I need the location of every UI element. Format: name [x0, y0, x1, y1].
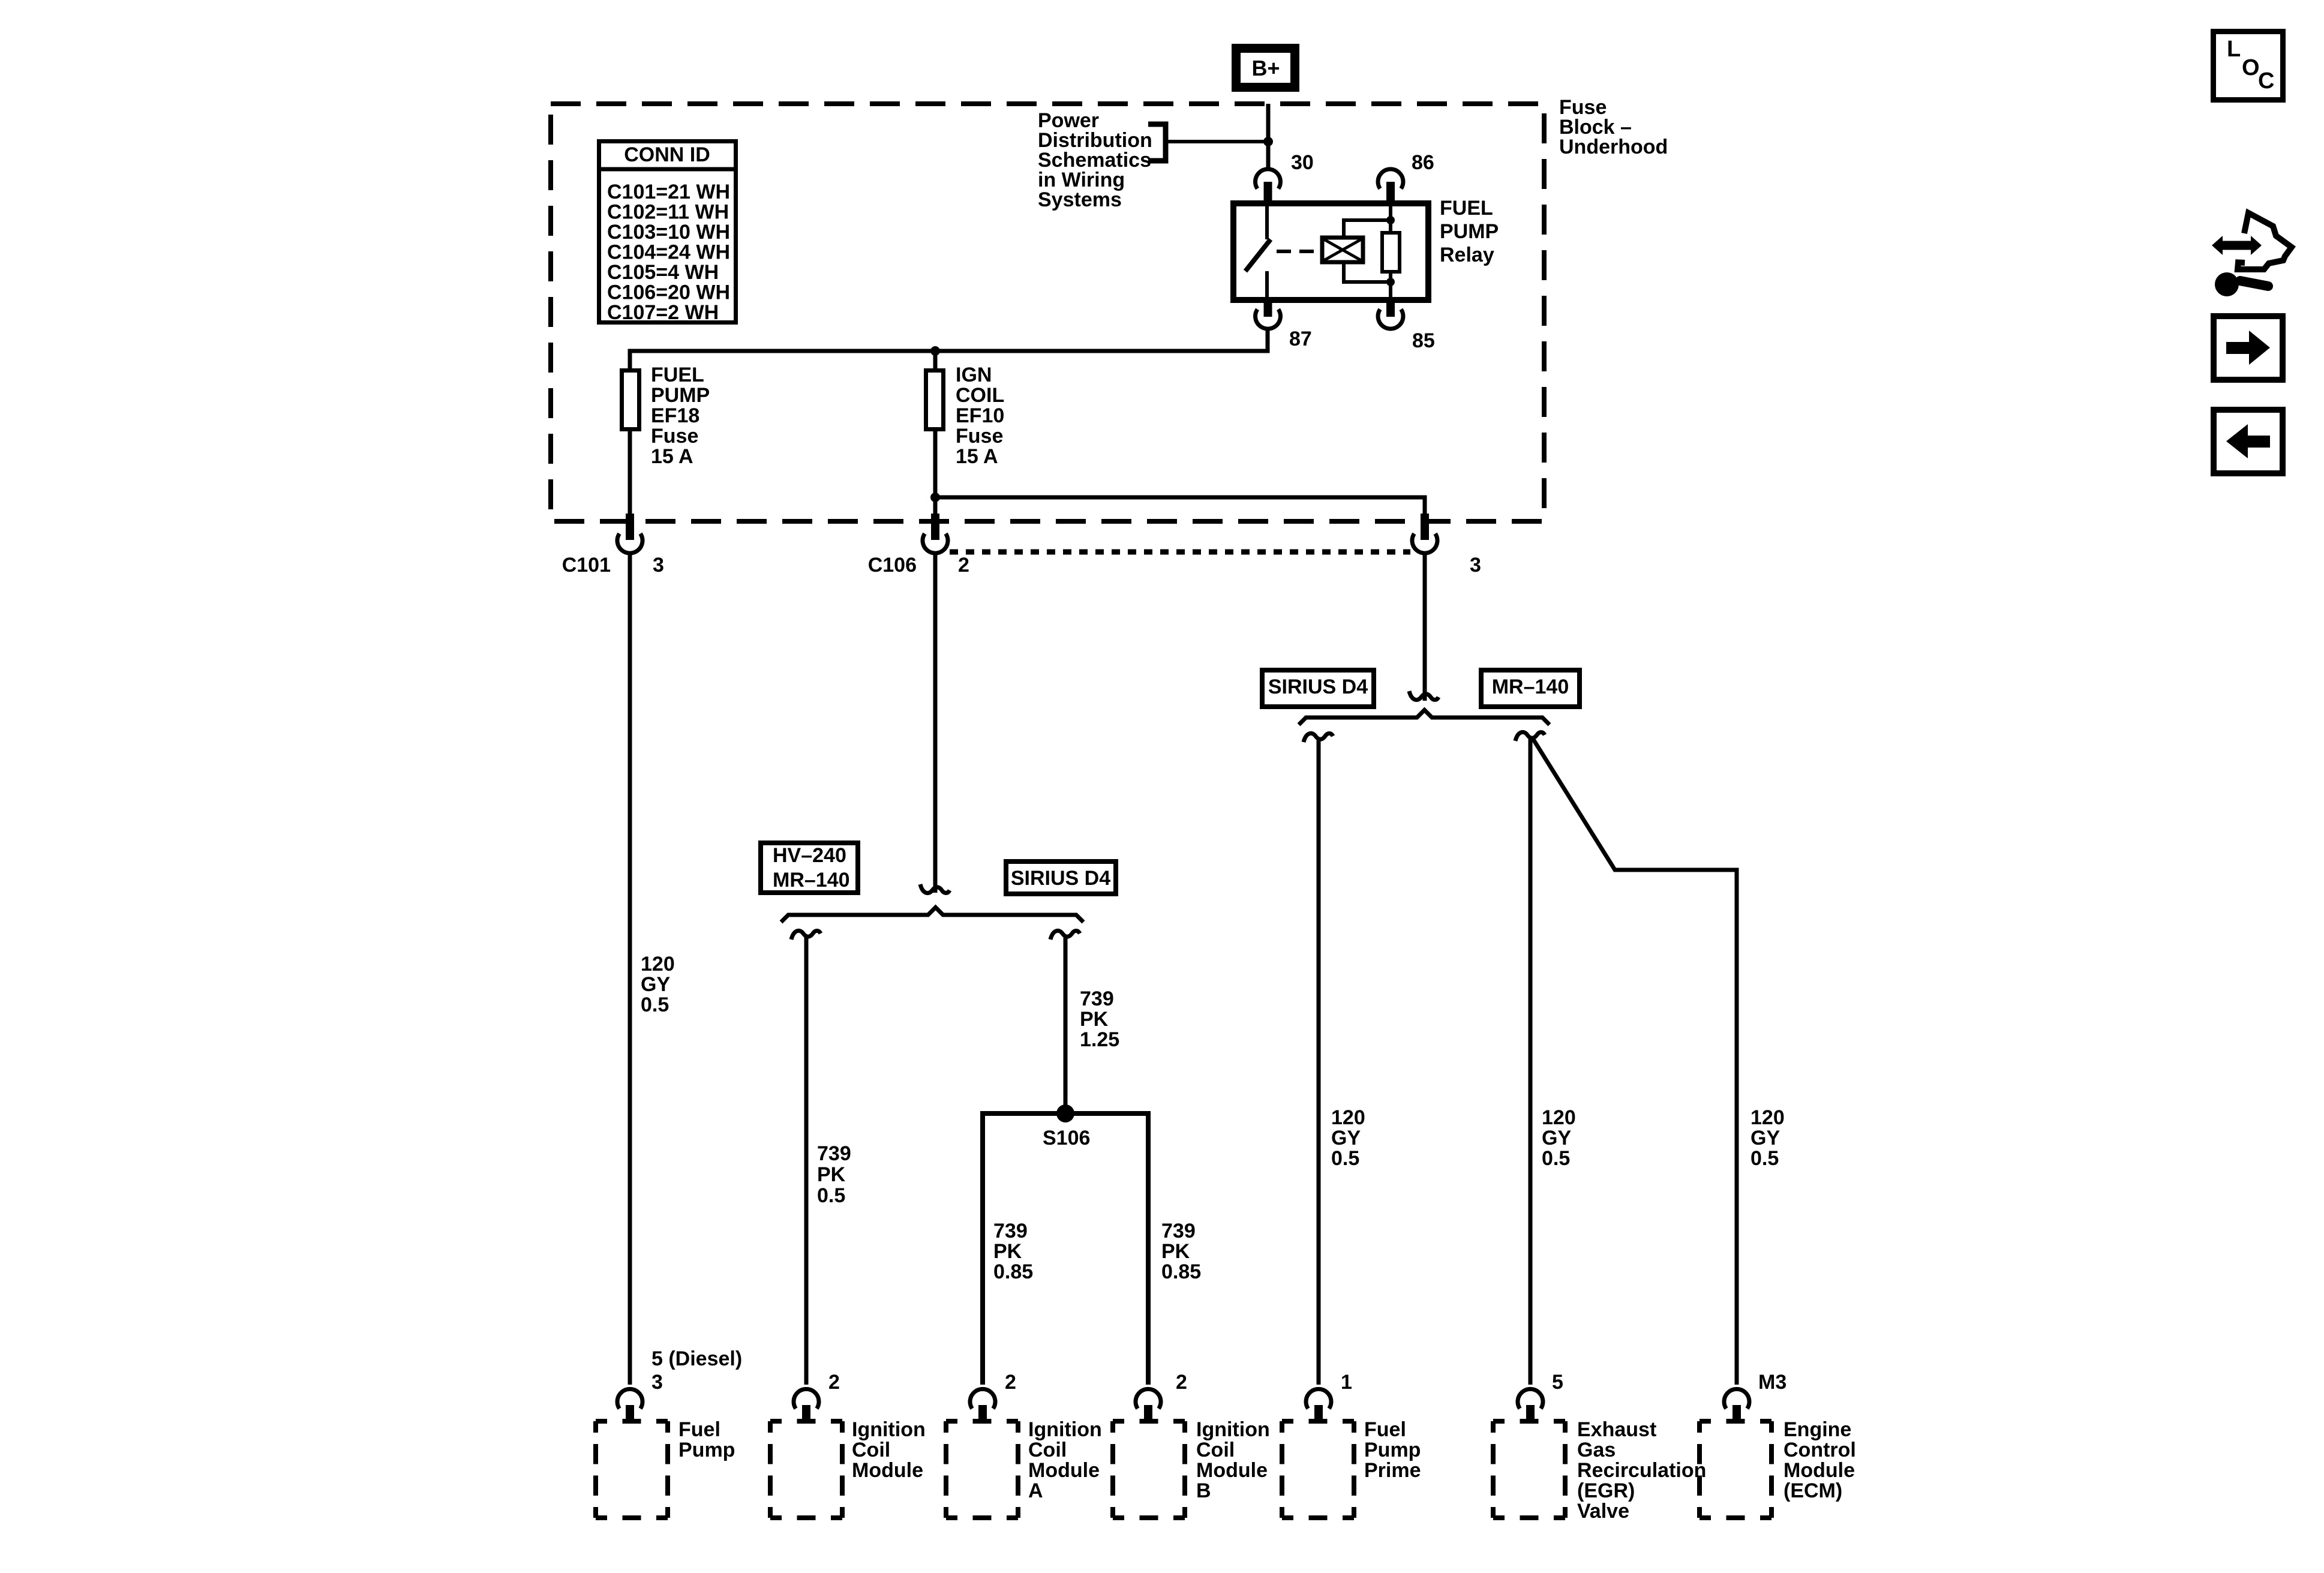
SEC_TOP	[630, 555, 1785, 1385]
svg-text:FUELPUMPRelay: FUELPUMPRelay	[1440, 197, 1499, 266]
svg-text:O: O	[2242, 55, 2260, 80]
connector C106 pin 3 (right)	[1421, 514, 1429, 540]
wire diagonal to ECM	[1533, 739, 1737, 1385]
wire pin 87 to fuses feed	[630, 329, 1268, 368]
component box Ignition Coil Module A	[946, 1421, 1018, 1518]
relay resistor	[1382, 233, 1400, 272]
fuse EF18 FUEL PUMP	[622, 371, 639, 430]
svg-text:2: 2	[958, 554, 969, 577]
relay pin 86 connector	[1378, 169, 1403, 189]
CONN ID table box	[599, 142, 736, 323]
connector C101 pin 3	[626, 514, 634, 540]
relay switch	[1265, 205, 1269, 239]
icon vehicle part with arrows and wrench	[2212, 236, 2262, 255]
svg-text:86: 86	[1412, 151, 1434, 174]
node fuse feed junction	[930, 346, 940, 356]
svg-text:C101: C101	[562, 554, 611, 577]
svg-text:3: 3	[651, 1371, 663, 1394]
SEC_BOTTOM	[2212, 32, 2292, 474]
wire to Ignition Coil Module	[804, 936, 809, 1385]
wire fuse EF10 down	[933, 431, 938, 515]
splice S106	[1056, 1104, 1074, 1122]
box label SIRIUS D4 (upper)	[1262, 670, 1374, 707]
power feed B+ box	[1236, 49, 1295, 88]
wire to Fuel Pump Prime	[1317, 738, 1321, 1385]
svg-text:S106: S106	[1043, 1127, 1090, 1149]
branch curl Ignition Coil Module	[791, 930, 821, 939]
branch curl to S106	[1050, 930, 1080, 939]
bracket for Power Distribution reference	[1148, 124, 1166, 161]
svg-text:SIRIUS D4: SIRIUS D4	[1011, 867, 1110, 890]
svg-text:30: 30	[1291, 151, 1314, 174]
relay coil (box with X)	[1322, 238, 1363, 262]
wire resistor bottom	[1389, 272, 1392, 300]
wire C106 down to brace	[933, 555, 938, 893]
relay pin 30 connector	[1256, 169, 1281, 189]
node junction on B+ wire	[1263, 137, 1273, 146]
box label MR-140 (upper)	[1481, 670, 1580, 707]
box label HV-240 MR-140	[761, 843, 858, 893]
svg-text:5: 5	[1552, 1371, 1563, 1394]
wire S106 spread	[983, 1113, 1148, 1385]
svg-text:M3: M3	[1758, 1371, 1786, 1394]
component box Ignition Coil Module B	[1113, 1421, 1185, 1518]
svg-text:1: 1	[1341, 1371, 1352, 1394]
LOC legend box	[2214, 32, 2283, 100]
wire to EGR valve	[1529, 737, 1533, 1385]
component box EGR Valve	[1493, 1421, 1565, 1518]
component box Fuel Pump	[596, 1421, 668, 1518]
svg-text:5 (Diesel): 5 (Diesel)	[651, 1347, 742, 1370]
connector EGR valve pin 5	[1518, 1389, 1543, 1409]
branch curl Fuel Pump Prime	[1304, 733, 1333, 742]
wire fuse EF18 down to C101	[628, 431, 632, 515]
svg-text:C101=21 WHC102=11 WHC103=10 WH: C101=21 WHC102=11 WHC103=10 WHC104=24 WH…	[607, 181, 730, 324]
svg-text:SIRIUS D4: SIRIUS D4	[1268, 676, 1368, 698]
connector Ignition Coil Module B pin 2	[1136, 1389, 1161, 1409]
dotted same-connector line C106	[950, 550, 1410, 555]
relay actuator dashed line	[1277, 250, 1322, 253]
curl at right wire end	[1409, 691, 1439, 700]
brace lower (splice spread)	[781, 908, 1083, 923]
svg-text:MR–140: MR–140	[1492, 676, 1569, 698]
component box Ignition Coil Module	[770, 1421, 842, 1518]
connector C106 pin 2	[931, 514, 939, 540]
branch curl EGR/ECM	[1515, 732, 1545, 741]
svg-text:C106: C106	[868, 554, 917, 577]
wire to power distribution bracket	[1167, 140, 1268, 143]
svg-text:2: 2	[828, 1371, 840, 1394]
fuse block dashed border (Fuse Block - Underhood)	[551, 104, 1544, 521]
relay box FUEL PUMP Relay	[1233, 203, 1428, 300]
svg-text:85: 85	[1412, 329, 1435, 352]
fuse EF10 IGN COIL	[926, 371, 944, 430]
relay pin 85 connector	[1386, 300, 1395, 317]
wire junction to right drop	[935, 497, 1425, 515]
SEC_MID	[596, 1347, 1856, 1523]
relay pin 87 connector	[1264, 300, 1272, 317]
wire pin 86 down	[1389, 202, 1392, 233]
svg-text:3: 3	[1470, 554, 1481, 577]
connector Ignition Coil Module pin 2	[794, 1389, 819, 1409]
connector ECM pin M3	[1724, 1389, 1749, 1409]
connector Ignition Coil Module A pin 2	[970, 1389, 995, 1409]
wire right C106-3 down to brace	[1423, 555, 1427, 701]
svg-text:2: 2	[1005, 1371, 1016, 1394]
wire B+ down to relay pin 30	[1266, 104, 1271, 169]
wire coil top to pin86 net	[1344, 220, 1391, 238]
connector Fuel Pump Prime pin 1	[1306, 1389, 1331, 1409]
curl at C106 wire end	[920, 884, 950, 893]
wire C101 down to Fuel Pump	[628, 555, 632, 1385]
component box ECM	[1700, 1421, 1771, 1518]
svg-text:C: C	[2258, 68, 2274, 94]
brace upper (splice spread)	[1299, 710, 1550, 725]
svg-text:L: L	[2227, 37, 2241, 62]
svg-text:B+: B+	[1251, 56, 1280, 80]
svg-text:CONN ID: CONN ID	[624, 143, 710, 166]
box label SIRIUS D4 (lower)	[1006, 861, 1116, 894]
icon arrow right box	[2214, 316, 2283, 380]
wire to splice S106	[1064, 936, 1068, 1113]
component box Fuel Pump Prime	[1282, 1421, 1354, 1518]
wire coil bottom to pin85 net	[1344, 262, 1391, 282]
connector Fuel Pump pin 3/5	[617, 1389, 642, 1409]
svg-text:3: 3	[653, 554, 664, 577]
svg-text:2: 2	[1176, 1371, 1187, 1394]
node junction below EF10	[930, 493, 940, 502]
icon arrow left box	[2214, 410, 2283, 473]
svg-text:87: 87	[1289, 328, 1312, 350]
